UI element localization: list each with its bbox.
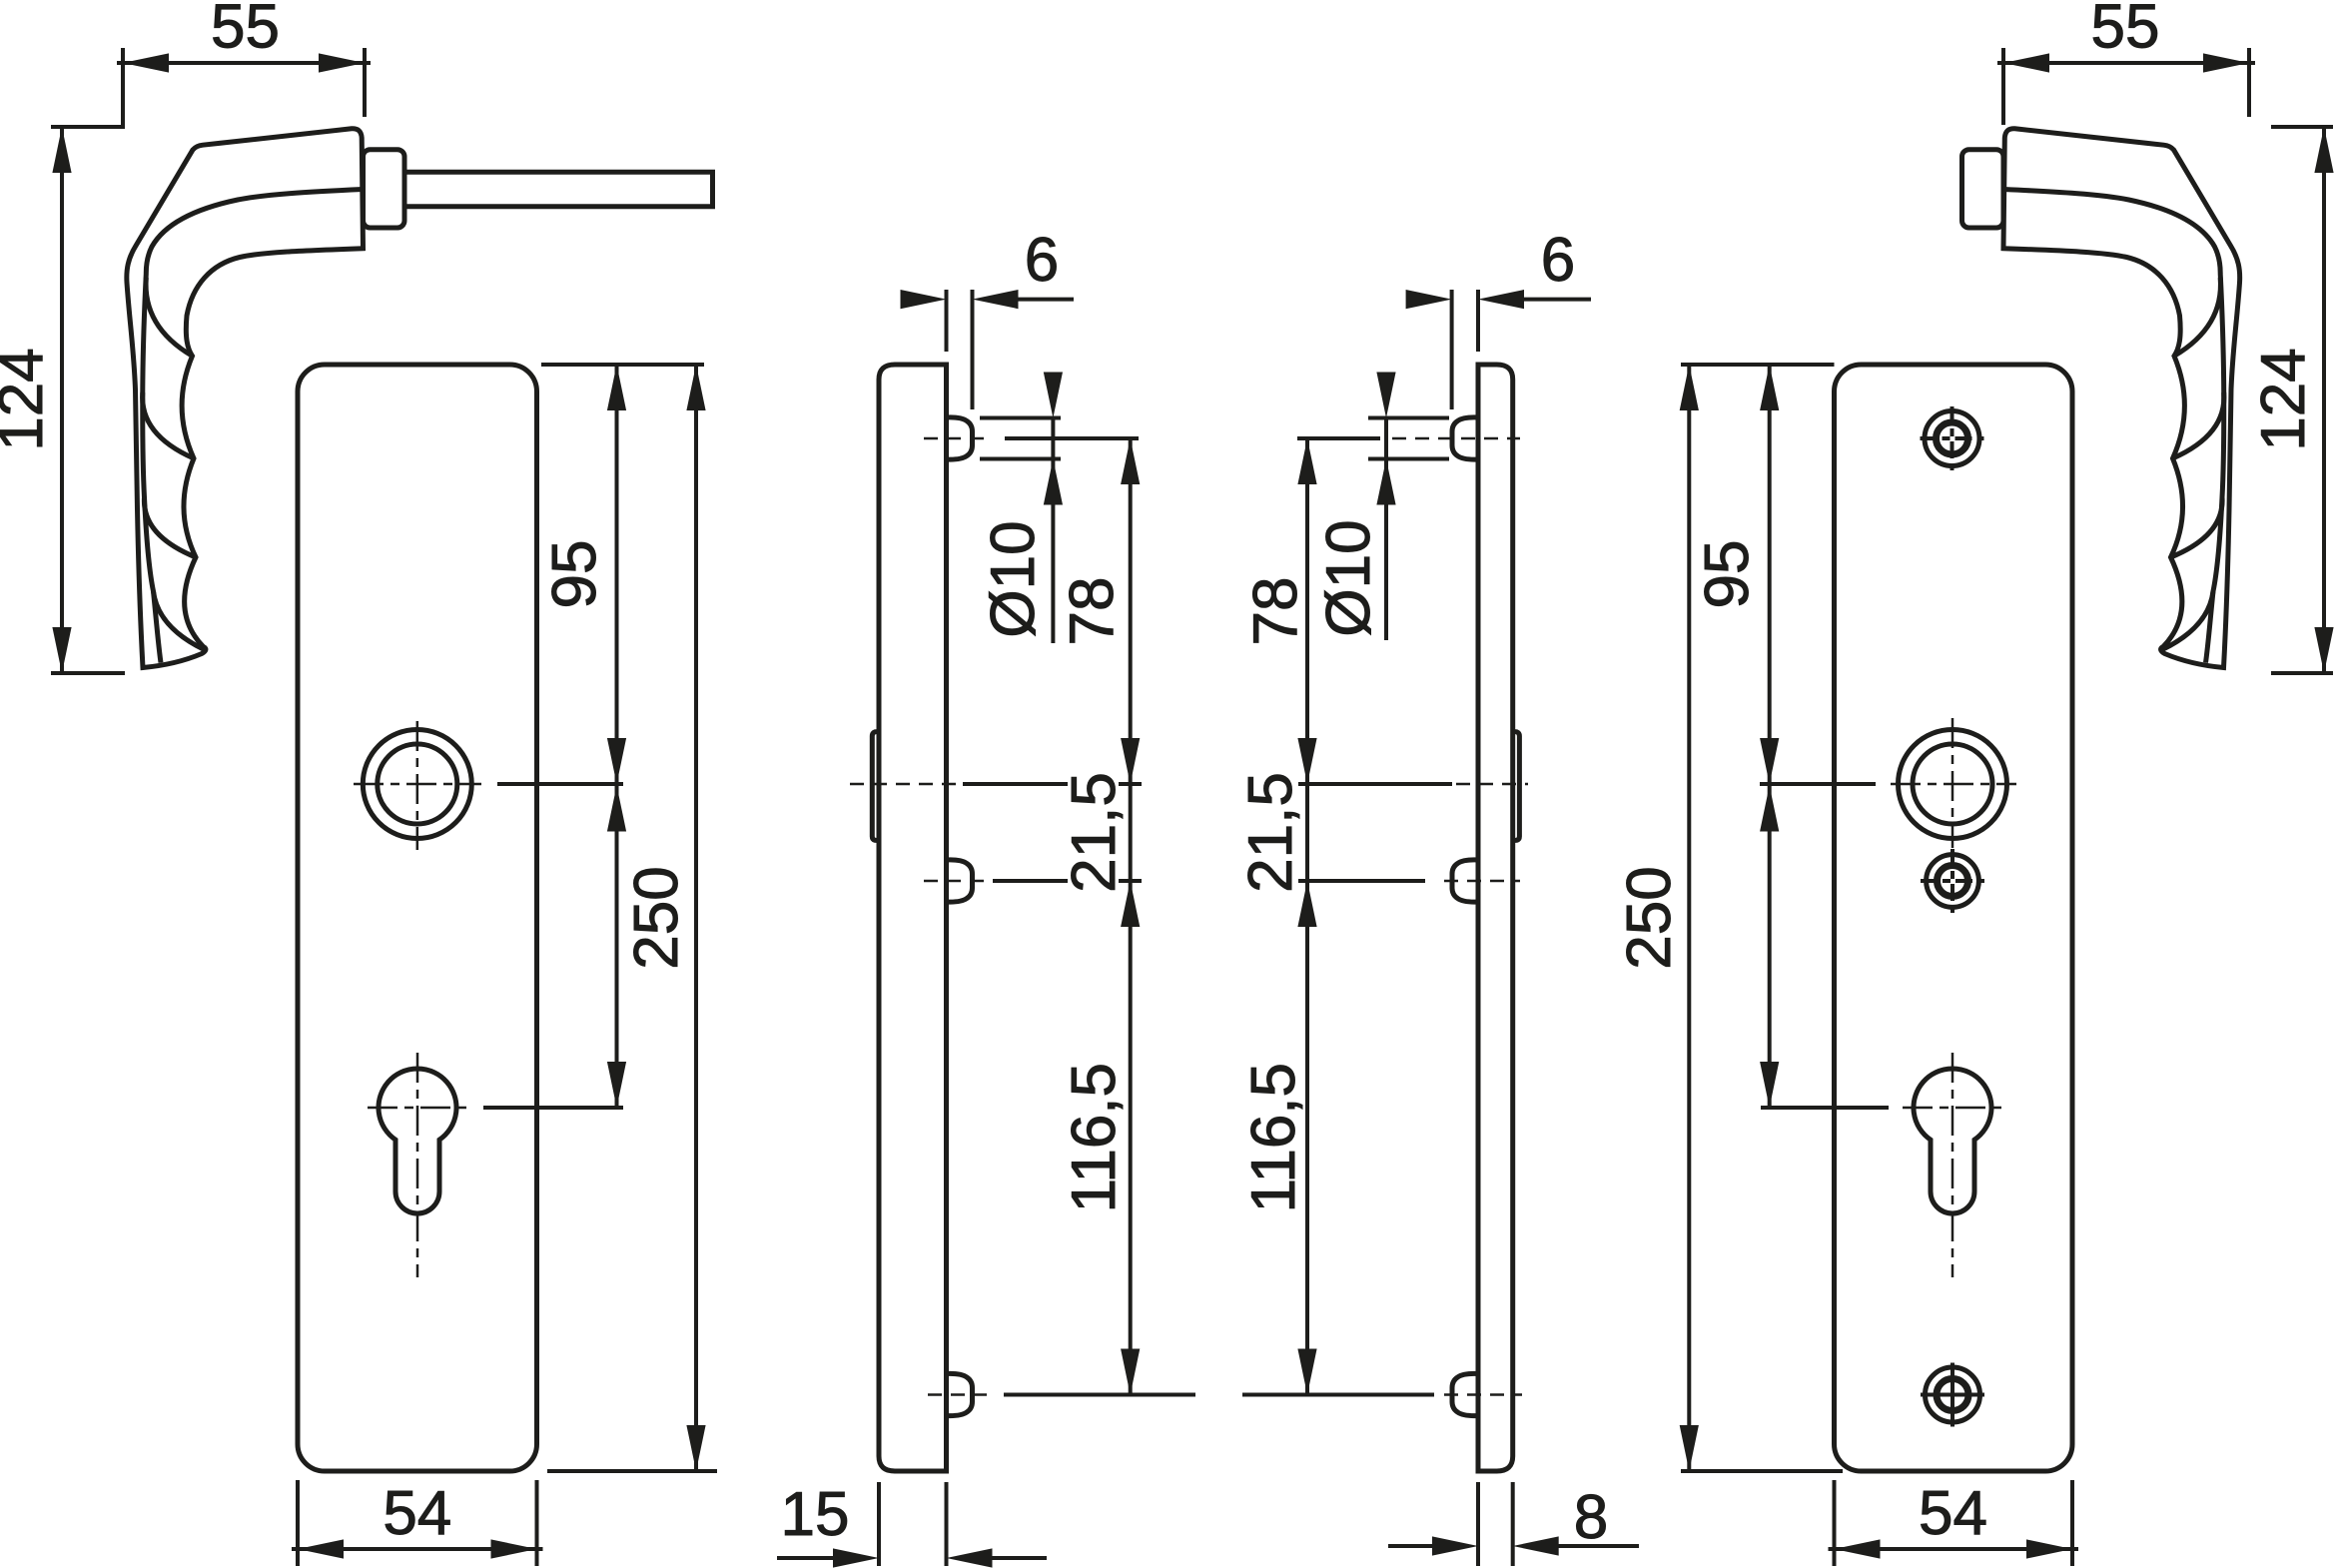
- hub leader (view 2): [963, 782, 1068, 786]
- dim 78 arrow top (view 3): [1297, 438, 1316, 484]
- dim 124 dimension line (view 1): [60, 127, 64, 673]
- dim 55 arrow left (view 4): [2003, 53, 2049, 72]
- dim 15 extension line right (view 2): [945, 1482, 949, 1566]
- dim 6 arrow right (view 3): [1478, 290, 1524, 309]
- svg-text:95: 95: [540, 540, 609, 609]
- dim 8 extension line left (view 3): [1476, 1482, 1480, 1566]
- hub collar bump (view 3): [1513, 732, 1520, 841]
- svg-text:116,5: 116,5: [1239, 1063, 1308, 1213]
- svg-text:250: 250: [622, 866, 691, 969]
- dim 6 tail line (view 3): [1523, 298, 1591, 302]
- handle hole outer circle (view 1): [363, 730, 471, 839]
- handle neck block (view 4): [1962, 150, 2004, 228]
- dim 54 extension line left (view 1): [296, 1480, 300, 1566]
- dim 250 dimension line (view 4): [1687, 365, 1691, 1471]
- dim 250 extension line bottom (view 1): [547, 1469, 717, 1473]
- dim Ø10 arrow bottom (view 3): [1376, 459, 1395, 505]
- svg-text:250: 250: [1615, 866, 1684, 969]
- view 3: exterior plate side profile, 8 mm deep: [1236, 226, 1639, 1566]
- middle tick at chain line (view 2): [1119, 879, 1142, 883]
- dim 15 tail right (view 2): [992, 1556, 1048, 1560]
- dim 15 arrow left (view 2): [833, 1548, 879, 1567]
- top fixing peg (view 2): [947, 417, 973, 459]
- dim 124 arrow bottom (view 4): [2314, 627, 2333, 673]
- bottom fixing peg (view 3): [1452, 1373, 1478, 1415]
- finger scallop separator 4 (view 4): [2162, 591, 2213, 650]
- svg-text:55: 55: [2091, 0, 2160, 62]
- dim 21,5 arrow bottom (view 3): [1297, 881, 1316, 927]
- security plate profile (view 3): [1478, 365, 1513, 1471]
- handle hole inner circle (view 4): [1913, 744, 1992, 824]
- spindle shaft (view 1): [404, 172, 713, 206]
- dim 95 extension line top (view 1): [541, 363, 704, 367]
- svg-text:55: 55: [211, 0, 280, 62]
- middle fixing peg (view 2): [947, 860, 973, 902]
- dim 78 arrow top (view 2): [1121, 438, 1140, 484]
- dim Ø10 tick bottom (view 2): [980, 457, 1061, 461]
- chained segment arrow upper (view 1): [607, 786, 626, 832]
- dim 124 tick top (view 1): [51, 125, 125, 129]
- svg-text:21,5: 21,5: [1060, 772, 1129, 893]
- dim 55 dimension line (view 1): [117, 61, 371, 65]
- handle hole centerline horizontal (view 1): [354, 783, 481, 786]
- keyhole centerline vertical (view 1): [416, 1053, 419, 1277]
- top fixing screw symbol (view 4): [1921, 406, 1984, 470]
- dim 15 extension line left (view 2): [877, 1482, 881, 1566]
- finger scallop separator 3 (view 4): [2171, 497, 2223, 557]
- dim 21,5 arrow bottom (view 2): [1121, 881, 1140, 927]
- dim 124 arrow top (view 1): [52, 127, 71, 173]
- hub collar bump (view 2): [872, 732, 879, 841]
- dim 54 arrow right (view 4): [2026, 1539, 2072, 1558]
- svg-text:95: 95: [1693, 540, 1762, 609]
- bottom fixing screw symbol (view 4): [1921, 1363, 1984, 1427]
- dim 95 arrow bottom (view 4): [1760, 738, 1779, 784]
- chain dimension line (view 2): [1129, 438, 1133, 1395]
- dim 124 tick bottom (view 1): [51, 671, 125, 675]
- middle peg leader (view 2): [993, 879, 1068, 883]
- dim 116,5 arrow bottom (view 2): [1121, 1349, 1140, 1395]
- dim Ø10 arrow top (view 3): [1376, 373, 1395, 418]
- svg-text:124: 124: [0, 348, 56, 450]
- view 2: backplate side profile, 15 mm deep: [777, 226, 1195, 1568]
- handle neck block (view 1): [364, 150, 405, 228]
- dim Ø10 arrow bottom (view 2): [1044, 459, 1063, 505]
- dim 55 arrow left (view 1): [123, 53, 169, 72]
- chained segment arrow lower (view 1): [607, 1062, 626, 1108]
- svg-text:15: 15: [781, 1480, 850, 1549]
- dim 124 dimension line (view 4): [2322, 127, 2326, 673]
- svg-text:78: 78: [1241, 577, 1310, 646]
- dim 95 arrow top (view 1): [607, 365, 626, 410]
- dim 8 tail right (view 3): [1558, 1544, 1639, 1548]
- dim 124 arrow bottom (view 1): [52, 627, 71, 673]
- handle grip outline (view 1): [127, 129, 364, 668]
- dim Ø10 tick bottom (view 3): [1368, 457, 1449, 461]
- keyhole centerline horizontal (view 4): [1903, 1107, 2002, 1110]
- euro profile cylinder hole (view 4): [1914, 1069, 1991, 1213]
- hub centerline dashed (view 2): [850, 783, 960, 786]
- bottom peg centerline dashed (view 3): [1444, 1393, 1522, 1396]
- view 1: interior handle with long backplate, front view: [0, 0, 717, 1566]
- top peg centerline dashed (view 3): [1392, 437, 1520, 440]
- chained segment arrow lower (view 4): [1760, 1062, 1779, 1108]
- dim 55 arrow right (view 4): [2203, 53, 2249, 72]
- dim 6 extension line right (view 2): [971, 290, 975, 409]
- dim 6 extension line left (view 3): [1450, 290, 1454, 409]
- handle hole outer circle (view 4): [1899, 730, 2007, 839]
- security backplate (view 4): [1835, 365, 2073, 1471]
- bottom peg leader (view 3): [1242, 1393, 1434, 1397]
- handle mirrored group (view 4): [1962, 129, 2240, 668]
- middle fixing peg (view 3): [1452, 860, 1478, 902]
- hub leader line (view 1): [497, 782, 623, 786]
- dim 15 arrow right (view 2): [947, 1548, 993, 1567]
- svg-text:21,5: 21,5: [1236, 772, 1305, 893]
- dim 8 tail left (view 3): [1388, 1544, 1433, 1548]
- dim 54 dimension line (view 1): [292, 1547, 543, 1551]
- finger scallop separator 2 (view 1): [143, 392, 194, 458]
- dim Ø10 arrow top (view 2): [1044, 373, 1063, 418]
- handle grip outline (view 4): [2003, 129, 2240, 668]
- backplate (view 1): [298, 365, 537, 1471]
- dim 95 arrow bottom (view 1): [607, 738, 626, 784]
- dim 54 extension line right (view 4): [2070, 1480, 2074, 1566]
- dim 54 extension line right (view 1): [535, 1480, 539, 1566]
- handle hole centerline vertical (view 4): [1951, 718, 1954, 848]
- dim Ø10 tick top (view 2): [980, 416, 1061, 420]
- keyhole leader line (view 4): [1761, 1106, 1889, 1110]
- top fixing peg (view 3): [1452, 417, 1478, 459]
- dim 55 extension line left (view 4): [2001, 48, 2005, 125]
- dim 250 arrow top (view 4): [1680, 365, 1699, 410]
- dim 95 extension line top (view 4): [1681, 363, 1835, 367]
- dim 54 arrow left (view 1): [298, 1539, 344, 1558]
- dim 15 tail left (view 2): [777, 1556, 834, 1560]
- middle fixing screw symbol (view 4): [1921, 849, 1984, 913]
- backplate profile (view 2): [879, 365, 947, 1471]
- chain dimension line (view 3): [1305, 438, 1309, 1395]
- dim 78 arrow bottom (view 2): [1121, 738, 1140, 784]
- svg-text:54: 54: [383, 1479, 451, 1548]
- euro profile cylinder hole (view 1): [379, 1069, 456, 1213]
- dim 55 extension line right (view 4): [2247, 48, 2251, 117]
- dim Ø10 dimension line (view 2): [1051, 418, 1055, 644]
- dim 250 arrow top (view 1): [686, 365, 705, 410]
- dim Ø10 dimension line (view 3): [1384, 418, 1388, 641]
- dim 95 arrow top (view 4): [1760, 365, 1779, 410]
- dim 6 arrow right (view 2): [973, 290, 1019, 309]
- keyhole leader line (view 1): [483, 1106, 623, 1110]
- dim 6 arrow left (view 2): [901, 290, 947, 309]
- dim 78 arrow bottom (view 3): [1297, 738, 1316, 784]
- bottom fixing peg (view 2): [947, 1373, 973, 1415]
- top peg leader (view 3): [1297, 436, 1380, 440]
- dim 116,5 arrow bottom (view 3): [1297, 1349, 1316, 1395]
- keyhole centerline vertical (view 4): [1951, 1053, 1954, 1277]
- keyhole centerline horizontal (view 1): [368, 1107, 467, 1110]
- dim 6 extension line left (view 2): [945, 290, 949, 352]
- hub leader line (view 4): [1760, 782, 1876, 786]
- hub leader (view 3): [1298, 782, 1452, 786]
- handle hole centerline vertical (view 1): [416, 721, 419, 850]
- middle peg centerline (view 2): [924, 880, 989, 883]
- top peg centerline (view 2): [924, 437, 989, 440]
- svg-text:6: 6: [1541, 226, 1575, 295]
- bottom peg centerline (view 2): [928, 1393, 987, 1396]
- dim 250 arrow bottom (view 4): [1680, 1425, 1699, 1471]
- handle face middle line (view 1): [143, 190, 363, 663]
- dim 55 extension line right (view 1): [363, 48, 367, 117]
- finger scallop separator 4 (view 1): [154, 591, 205, 650]
- dim 250 extension line bottom (view 4): [1681, 1469, 1843, 1473]
- dim 8 extension line right (view 3): [1511, 1482, 1515, 1566]
- dim 124 tick bottom (view 4): [2271, 671, 2333, 675]
- svg-text:Ø10: Ø10: [979, 520, 1048, 637]
- svg-text:54: 54: [1919, 1479, 1987, 1548]
- dim 6 tail line (view 2): [1018, 298, 1075, 302]
- svg-text:124: 124: [2249, 348, 2318, 450]
- middle peg leader (view 3): [1298, 879, 1425, 883]
- dim 124 arrow top (view 4): [2314, 127, 2333, 173]
- handle hole inner circle (view 1): [378, 744, 457, 824]
- finger scallop separator 1 (view 1): [146, 278, 192, 356]
- dim Ø10 tick top (view 3): [1368, 416, 1449, 420]
- dim 250 dimension line (view 1): [694, 365, 698, 1471]
- dim 54 arrow right (view 1): [491, 1539, 537, 1558]
- dim 55 extension line left (view 1): [121, 48, 125, 126]
- svg-text:6: 6: [1025, 226, 1059, 295]
- dim 55 arrow right (view 1): [319, 53, 365, 72]
- finger scallop separator 2 (view 4): [2173, 392, 2224, 458]
- view 4: exterior security plate with handle, front view: [1615, 0, 2334, 1566]
- dim 54 arrow left (view 4): [1835, 1539, 1881, 1558]
- dim 55 dimension line (view 4): [1997, 61, 2255, 65]
- dim 8 arrow right (view 3): [1513, 1536, 1559, 1555]
- svg-text:8: 8: [1574, 1483, 1608, 1552]
- finger scallop separator 3 (view 1): [144, 497, 196, 557]
- svg-text:116,5: 116,5: [1060, 1063, 1129, 1213]
- handle hole centerline horizontal (view 4): [1891, 783, 2016, 786]
- dim 124 tick top (view 4): [2271, 125, 2333, 129]
- hub centerline dashed (view 3): [1456, 783, 1528, 786]
- top peg leader (view 2): [1005, 436, 1139, 440]
- dim 95 dimension line (view 1): [615, 365, 619, 1108]
- handle face middle line (view 4): [2004, 190, 2224, 663]
- hub tick at chain line (view 2): [1119, 782, 1142, 786]
- svg-text:78: 78: [1058, 577, 1127, 646]
- dim 95 dimension line (view 4): [1768, 365, 1772, 1108]
- svg-text:Ø10: Ø10: [1314, 519, 1383, 636]
- finger scallop separator 1 (view 4): [2174, 278, 2220, 356]
- chained segment arrow upper (view 4): [1760, 786, 1779, 832]
- dim 54 dimension line (view 4): [1829, 1547, 2079, 1551]
- dim 8 arrow left (view 3): [1432, 1536, 1478, 1555]
- dim 6 arrow left (view 3): [1406, 290, 1452, 309]
- dim 250 arrow bottom (view 1): [686, 1425, 705, 1471]
- bottom peg leader (view 2): [1004, 1393, 1195, 1397]
- dim 6 extension line right (view 3): [1476, 290, 1480, 352]
- dim 54 extension line left (view 4): [1833, 1480, 1837, 1566]
- middle peg centerline dashed (view 3): [1444, 880, 1520, 883]
